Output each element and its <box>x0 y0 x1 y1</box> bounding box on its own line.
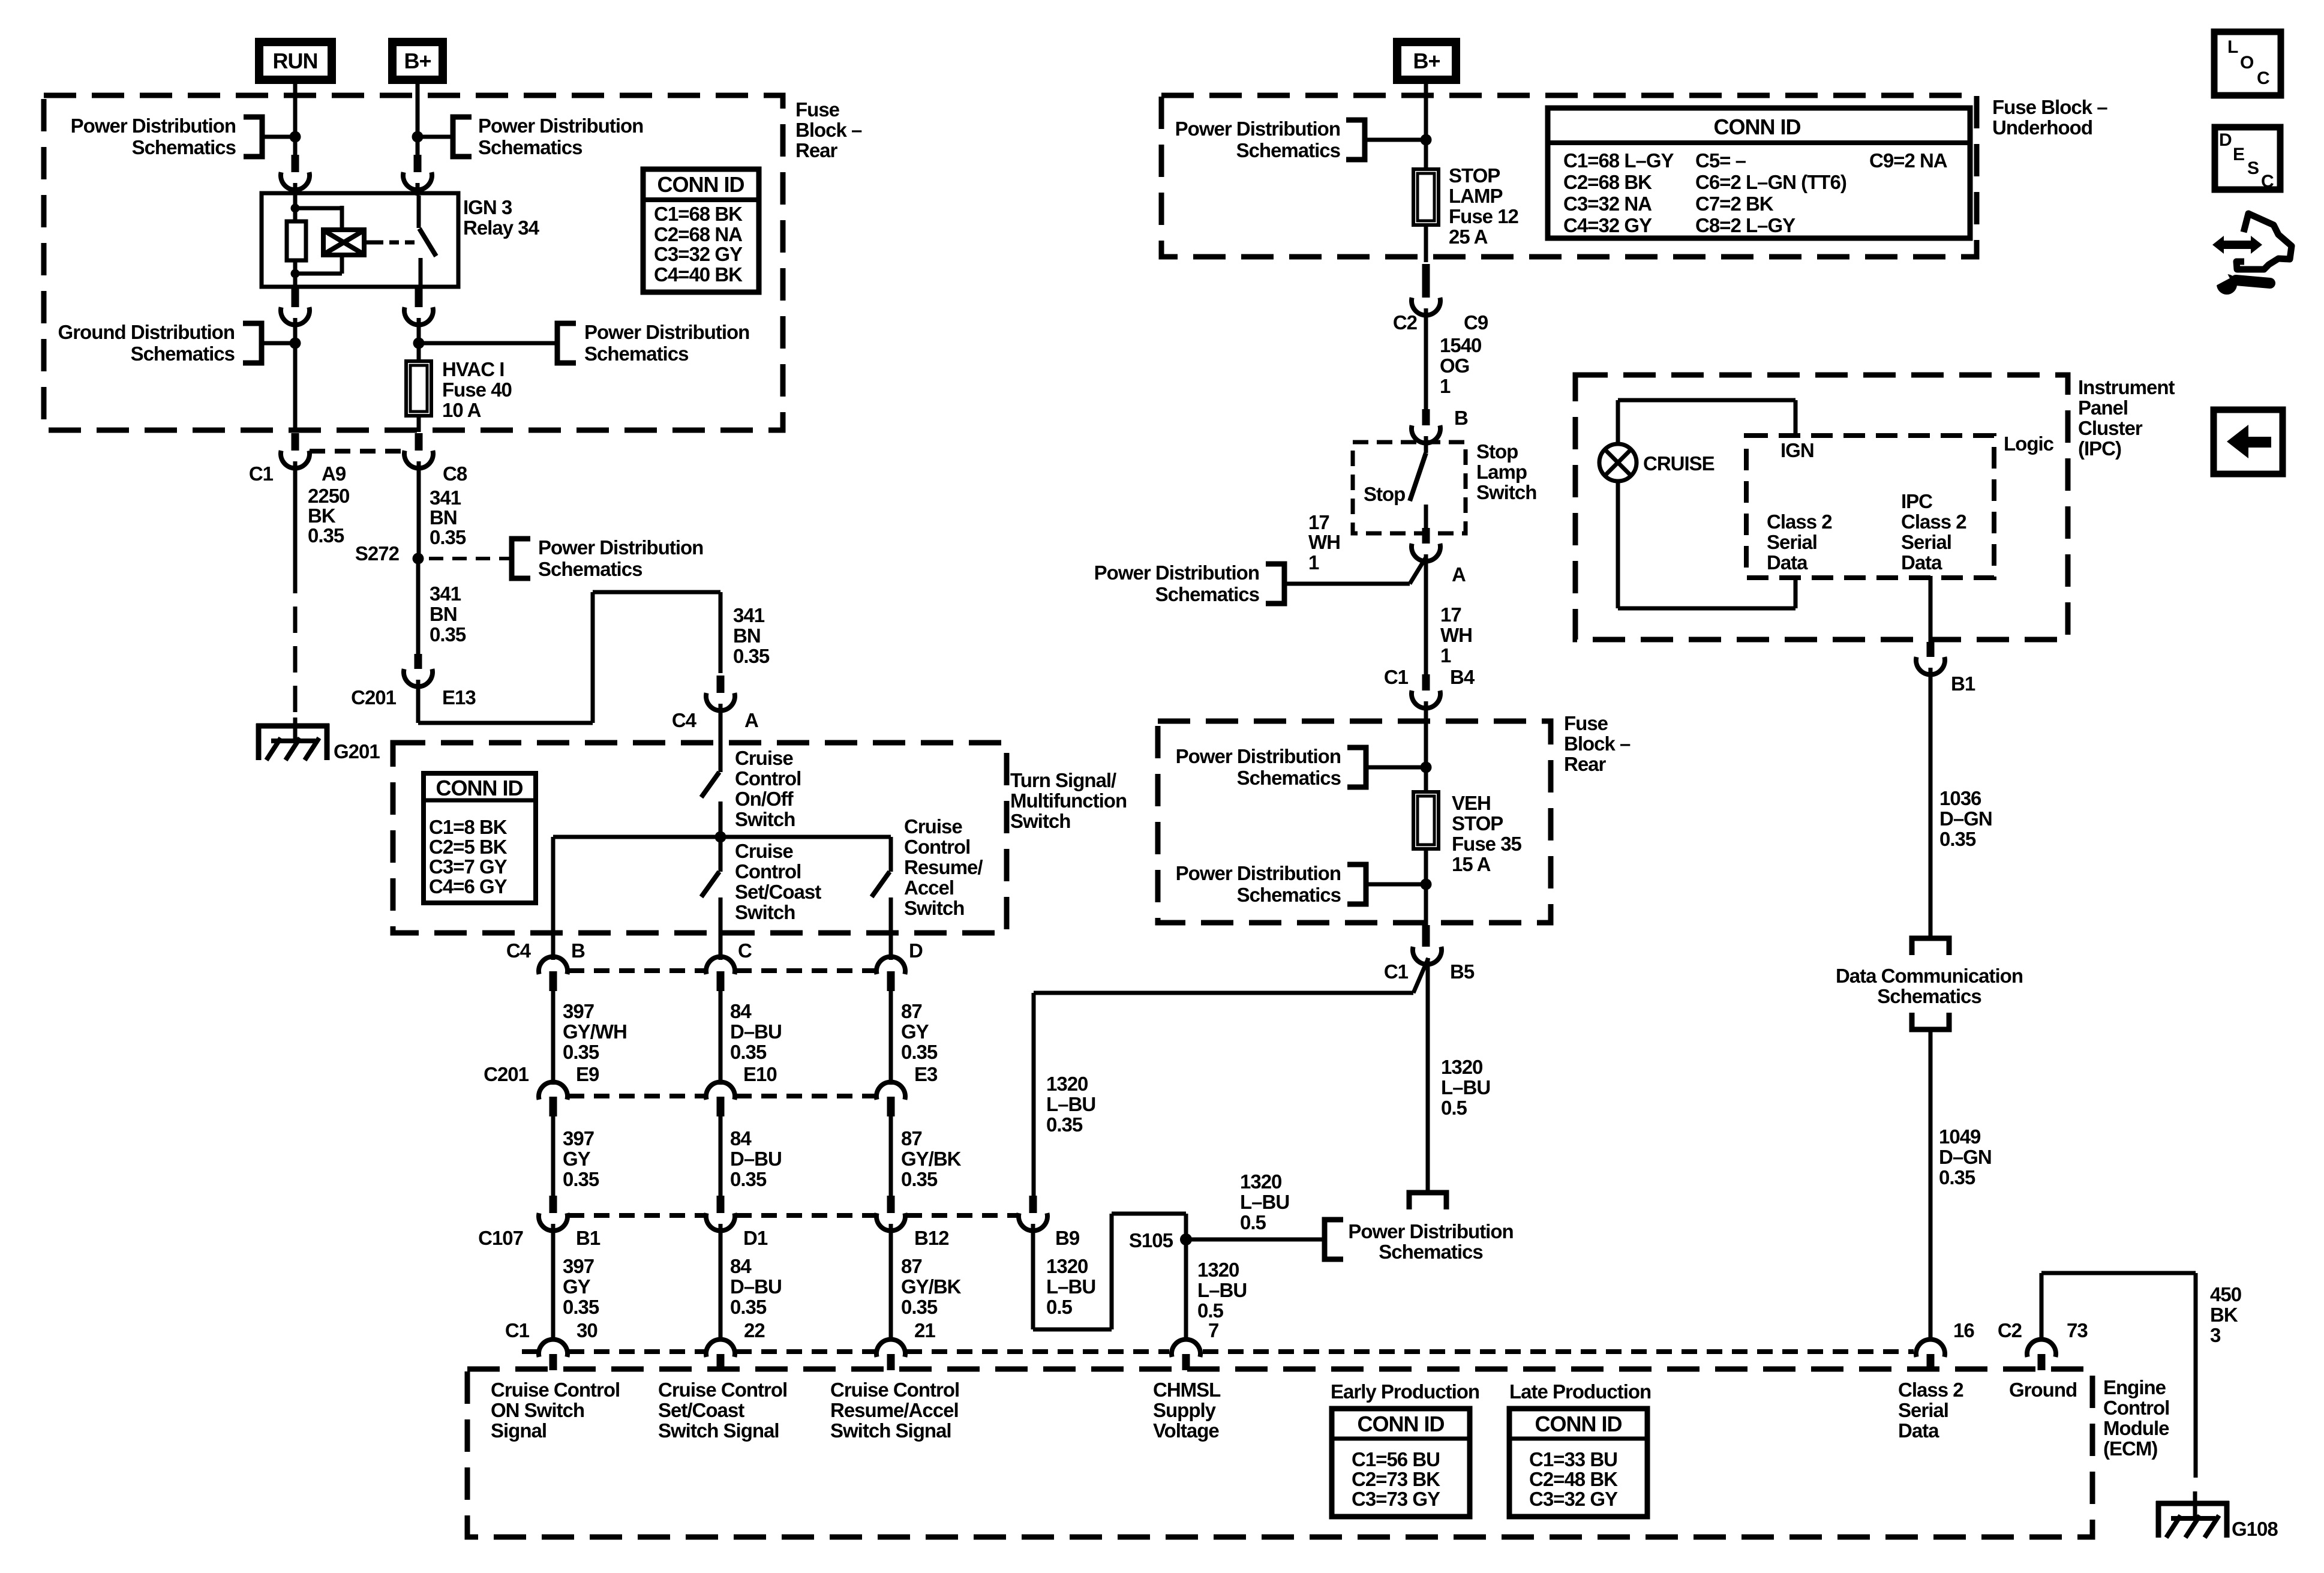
CONN ID table (turn signal) <box>424 773 536 903</box>
svg-text:0.5: 0.5 <box>1197 1299 1224 1322</box>
svg-text:D–BU: D–BU <box>730 1148 782 1170</box>
bracket ref power distribution (B+) <box>453 117 472 157</box>
connector B dome <box>539 957 568 974</box>
svg-text:Cruise: Cruise <box>735 840 793 862</box>
svg-text:Schematics: Schematics <box>1155 583 1259 605</box>
svg-text:C: C <box>2261 172 2274 191</box>
wire bracket to junction (veh stop bottom) <box>1366 882 1426 887</box>
connector B1 cup <box>550 1196 557 1213</box>
connector C1 pin B5 cup <box>1422 925 1430 947</box>
svg-text:Power Distribution: Power Distribution <box>584 321 749 343</box>
connector pin into relay (RUN side) <box>292 155 299 172</box>
connector C4 pin A <box>717 676 725 693</box>
cruise on/off switch blade <box>701 772 719 797</box>
wire stop switch out <box>1424 505 1428 536</box>
connector B cup (stop lamp) <box>1422 409 1430 425</box>
bracket ref power distribution (S105) <box>1325 1220 1343 1259</box>
wire A down to B4 <box>1424 554 1428 674</box>
wire S272 to C201 <box>416 559 421 654</box>
svg-text:Accel: Accel <box>904 876 954 899</box>
connector line C4 row <box>569 968 705 973</box>
svg-text:Fuse: Fuse <box>795 98 840 121</box>
connector line C107 row <box>569 1213 705 1218</box>
svg-text:C1=68 L–GY: C1=68 L–GY <box>1563 149 1674 172</box>
connector line C201 row <box>569 1094 705 1098</box>
svg-text:0.5: 0.5 <box>1046 1296 1073 1318</box>
svg-text:0.35: 0.35 <box>730 1168 767 1190</box>
wire C9 down <box>1424 308 1428 411</box>
svg-text:1: 1 <box>1308 551 1319 574</box>
svg-text:16: 16 <box>1953 1319 1974 1341</box>
connector 16 dome <box>1916 1340 1945 1357</box>
svg-text:Schematics: Schematics <box>584 343 688 365</box>
svg-text:S: S <box>2247 158 2259 178</box>
svg-text:Lamp: Lamp <box>1476 461 1527 483</box>
svg-text:Power Distribution: Power Distribution <box>1176 745 1341 767</box>
ground G201 <box>256 724 329 729</box>
junction right at power ref <box>413 338 425 349</box>
wire A into on/off switch <box>719 704 723 772</box>
svg-text:D1: D1 <box>743 1227 768 1249</box>
svg-text:VEH: VEH <box>1452 792 1491 814</box>
icon LOC box <box>2214 32 2281 95</box>
svg-text:Schematics: Schematics <box>1877 985 1981 1007</box>
svg-text:Cruise Control: Cruise Control <box>491 1379 620 1401</box>
svg-text:Control: Control <box>735 767 801 789</box>
svg-text:Resume/Accel: Resume/Accel <box>830 1399 959 1421</box>
icon service bent outline <box>2236 214 2292 269</box>
junction left at ground ref <box>290 338 301 349</box>
svg-text:C2: C2 <box>1998 1319 2022 1341</box>
svg-text:CONN ID: CONN ID <box>1358 1412 1445 1436</box>
svg-text:STOP: STOP <box>1452 812 1503 834</box>
wire S105 down to 7 <box>1184 1239 1188 1341</box>
svg-text:GY: GY <box>901 1020 929 1043</box>
connector A cup (stop lamp) <box>1422 528 1430 544</box>
svg-text:Control: Control <box>735 860 801 882</box>
svg-text:Cruise Control: Cruise Control <box>658 1379 787 1401</box>
icon DESC box <box>2215 127 2280 190</box>
svg-text:C107: C107 <box>478 1227 523 1249</box>
svg-text:C4=6 GY: C4=6 GY <box>429 875 508 897</box>
junction above fuse 35 <box>1421 762 1432 773</box>
svg-text:Switch: Switch <box>904 897 964 919</box>
svg-text:Serial: Serial <box>1767 531 1817 553</box>
svg-text:GY/WH: GY/WH <box>563 1020 627 1043</box>
svg-text:Fuse 12: Fuse 12 <box>1449 205 1519 227</box>
svg-text:E13: E13 <box>442 686 476 709</box>
svg-text:0.35: 0.35 <box>901 1296 938 1318</box>
svg-text:C3=32 GY: C3=32 GY <box>654 243 743 265</box>
svg-text:84: 84 <box>730 1127 752 1149</box>
svg-text:E10: E10 <box>743 1063 777 1085</box>
svg-text:IGN: IGN <box>1780 439 1814 461</box>
svg-text:87: 87 <box>901 1255 922 1277</box>
switch output junction <box>715 831 726 843</box>
svg-text:0.35: 0.35 <box>1939 1166 1975 1188</box>
svg-text:E: E <box>2233 145 2244 164</box>
svg-text:Schematics: Schematics <box>538 558 642 580</box>
svg-text:0.5: 0.5 <box>1441 1097 1467 1119</box>
svg-text:Fuse Block –: Fuse Block – <box>1992 96 2107 118</box>
cruise set/coast switch blade wire <box>719 837 723 872</box>
svg-text:B4: B4 <box>1450 666 1475 688</box>
svg-text:CHMSL: CHMSL <box>1153 1379 1221 1401</box>
svg-text:STOP: STOP <box>1449 164 1500 187</box>
power node B+ box (middle) <box>1397 42 1456 80</box>
wire fuse to box edge <box>417 416 421 432</box>
stop lamp switch blade <box>1410 453 1426 501</box>
svg-text:(IPC): (IPC) <box>2078 437 2121 460</box>
connector C1 pin B4 cup <box>1422 674 1430 691</box>
connector D dome <box>876 957 905 974</box>
svg-text:Turn Signal/: Turn Signal/ <box>1010 769 1116 791</box>
wire IPC class2 out <box>1929 576 1933 642</box>
svg-text:Stop: Stop <box>1476 440 1518 463</box>
svg-text:B: B <box>1454 407 1468 429</box>
svg-text:25 A: 25 A <box>1449 226 1488 248</box>
coil right stub <box>364 241 374 245</box>
svg-text:17: 17 <box>1308 511 1329 533</box>
svg-text:84: 84 <box>730 1255 752 1277</box>
svg-text:C201: C201 <box>351 686 397 709</box>
svg-text:C1=68 BK: C1=68 BK <box>654 203 743 225</box>
wire lamp top to IGN <box>1616 400 1620 444</box>
svg-text:341: 341 <box>430 487 461 509</box>
svg-text:Engine: Engine <box>2103 1376 2166 1398</box>
wire into relay left <box>293 183 298 196</box>
svg-text:D: D <box>909 939 923 962</box>
wire D1 to ECM <box>719 1224 723 1341</box>
svg-text:Multifunction: Multifunction <box>1010 789 1127 812</box>
svg-text:Relay 34: Relay 34 <box>463 217 540 239</box>
logic dashed box <box>1746 436 1994 578</box>
svg-text:E3: E3 <box>914 1063 938 1085</box>
svg-text:Logic: Logic <box>2004 433 2054 455</box>
svg-text:C2: C2 <box>1393 311 1418 334</box>
svg-text:Rear: Rear <box>795 139 838 161</box>
wire relay bottom left <box>292 289 299 307</box>
svg-text:IGN 3: IGN 3 <box>463 196 512 218</box>
svg-text:Data: Data <box>1767 551 1808 574</box>
svg-text:0.35: 0.35 <box>1046 1113 1083 1136</box>
svg-text:C8=2 L–GY: C8=2 L–GY <box>1695 214 1795 236</box>
junction on B+ wire <box>412 131 424 143</box>
dashed ref wire from S272 <box>429 557 509 560</box>
connector pin into relay (B+ side) <box>414 155 422 172</box>
wire B+ into underhood <box>1424 82 1428 169</box>
connector 30 dome <box>539 1340 568 1357</box>
relay junction top <box>291 204 300 213</box>
connector 7 dome <box>1172 1340 1200 1357</box>
svg-text:C9: C9 <box>1464 311 1488 334</box>
wire B4 into fuse block <box>1424 701 1428 792</box>
svg-text:BK: BK <box>308 505 336 527</box>
svg-text:0.5: 0.5 <box>1240 1211 1266 1233</box>
svg-text:S105: S105 <box>1129 1229 1173 1251</box>
connector E9 dome <box>539 1082 568 1100</box>
relay junction bottom <box>291 269 300 278</box>
svg-text:0.35: 0.35 <box>733 645 770 667</box>
cruise indicator lamp <box>1599 444 1637 481</box>
wire C8 to S272 <box>417 461 421 559</box>
svg-text:Schematics: Schematics <box>1237 767 1341 789</box>
wire E13 jog to C4 <box>416 680 421 723</box>
svg-text:A: A <box>744 709 758 731</box>
svg-text:Fuse: Fuse <box>1564 712 1608 734</box>
svg-text:C3=32 GY: C3=32 GY <box>1529 1488 1618 1510</box>
wire bracket to B+ junction <box>1365 138 1426 142</box>
svg-text:0.35: 0.35 <box>430 526 466 548</box>
svg-text:87: 87 <box>901 1127 922 1149</box>
svg-text:CONN ID: CONN ID <box>436 776 523 800</box>
wire right branch to resume <box>889 837 893 872</box>
wire D to C201 <box>889 991 893 1085</box>
wire coil bottom to junction <box>340 255 344 274</box>
svg-text:WH: WH <box>1308 531 1340 553</box>
bracket ref power distribution down (B5) <box>1409 1193 1446 1209</box>
svg-text:S272: S272 <box>355 542 400 565</box>
svg-text:CONN ID: CONN ID <box>1535 1412 1622 1436</box>
svg-text:C1: C1 <box>505 1319 530 1341</box>
svg-text:OG: OG <box>1440 355 1469 377</box>
CONN ID table (underhood) <box>1548 108 1970 238</box>
bracket ref ground distribution <box>243 323 262 363</box>
fuse block rear middle dashed box <box>1158 721 1551 923</box>
instrument panel cluster dashed box <box>1575 375 2068 640</box>
svg-text:Rear: Rear <box>1564 753 1607 775</box>
svg-text:Set/Coast: Set/Coast <box>735 881 821 903</box>
CONN ID table late <box>1509 1409 1647 1517</box>
svg-text:Block –: Block – <box>795 119 862 141</box>
svg-text:L–BU: L–BU <box>1197 1279 1247 1301</box>
svg-text:Schematics: Schematics <box>1237 884 1341 906</box>
svg-text:Stop: Stop <box>1364 483 1405 505</box>
svg-text:C4: C4 <box>672 709 697 731</box>
power node RUN box <box>259 42 332 80</box>
wire B+ junction to bracket <box>418 135 453 139</box>
svg-text:0.35: 0.35 <box>430 623 466 646</box>
svg-text:L–BU: L–BU <box>1441 1076 1490 1098</box>
svg-text:30: 30 <box>577 1319 597 1341</box>
svg-text:B12: B12 <box>914 1227 949 1249</box>
svg-text:Instrument: Instrument <box>2078 376 2175 398</box>
svg-text:Power Distribution: Power Distribution <box>538 536 703 559</box>
svg-text:341: 341 <box>430 583 461 605</box>
wire B9 jog to S105 <box>1031 1224 1035 1329</box>
svg-text:D–GN: D–GN <box>1939 1146 1992 1168</box>
bracket ref power distribution (veh stop top) <box>1347 748 1366 787</box>
svg-text:21: 21 <box>914 1319 935 1341</box>
svg-text:Power Distribution: Power Distribution <box>1176 862 1341 884</box>
svg-text:22: 22 <box>744 1319 765 1341</box>
svg-text:Class 2: Class 2 <box>1901 511 1966 533</box>
connector line ECM row <box>522 1349 538 1354</box>
svg-text:D: D <box>2219 130 2232 150</box>
relay K IGN 3 Relay 34 box <box>262 193 458 287</box>
svg-text:Power Distribution: Power Distribution <box>1348 1220 1513 1242</box>
connector C201 pin E13 <box>415 654 422 669</box>
wire data comm to ECM 16 <box>1929 1029 1933 1341</box>
fuse F HVAC I Fuse 40 <box>406 361 431 416</box>
wire B1 to data comm <box>1929 668 1933 936</box>
bracket ref power distribution (HVAC) <box>557 323 576 363</box>
wire B5 down <box>1426 958 1430 1193</box>
svg-text:C1=8 BK: C1=8 BK <box>429 816 508 838</box>
svg-text:RUN: RUN <box>273 49 318 73</box>
svg-text:0.35: 0.35 <box>308 524 344 547</box>
svg-text:GY/BK: GY/BK <box>901 1148 962 1170</box>
svg-text:1540: 1540 <box>1440 334 1481 356</box>
wire stub to G108 <box>2193 1491 2197 1503</box>
connector C2 pin C9 <box>1422 264 1430 298</box>
junction below fuse 35 <box>1421 879 1432 890</box>
connector line C1 <box>310 449 403 454</box>
dashed link coil to switch <box>374 241 416 245</box>
svg-text:Data Communication: Data Communication <box>1836 965 2023 987</box>
svg-text:1320: 1320 <box>1046 1073 1088 1095</box>
svg-text:BN: BN <box>430 603 457 625</box>
svg-text:Switch: Switch <box>735 901 795 923</box>
svg-text:Early Production: Early Production <box>1331 1380 1479 1403</box>
svg-text:Power Distribution: Power Distribution <box>1094 562 1259 584</box>
svg-text:Control: Control <box>904 836 970 858</box>
svg-text:0.35: 0.35 <box>1939 828 1976 850</box>
svg-text:Fuse 40: Fuse 40 <box>442 379 512 401</box>
svg-text:Underhood: Underhood <box>1992 116 2092 139</box>
svg-text:G108: G108 <box>2232 1518 2278 1540</box>
wire bracket to A <box>1284 582 1410 586</box>
svg-text:CONN ID: CONN ID <box>1714 115 1801 139</box>
svg-text:Schematics: Schematics <box>1236 139 1340 161</box>
wire lamp bottom to class2 <box>1616 481 1620 608</box>
bracket ref data comm bottom <box>1912 1013 1949 1029</box>
svg-text:Cluster: Cluster <box>2078 417 2143 439</box>
svg-text:1320: 1320 <box>1441 1056 1482 1078</box>
svg-text:Serial: Serial <box>1901 531 1951 553</box>
wire E9 to C107 <box>551 1116 556 1197</box>
svg-text:C2=73 BK: C2=73 BK <box>1352 1468 1440 1490</box>
svg-text:Supply: Supply <box>1153 1399 1217 1421</box>
svg-text:Data: Data <box>1901 551 1942 574</box>
relay wire below resistor <box>293 260 298 287</box>
svg-text:ON Switch: ON Switch <box>491 1399 584 1421</box>
junction B+ underhood <box>1421 134 1432 146</box>
bracket ref power distribution (stop) <box>1266 564 1284 604</box>
svg-text:Late Production: Late Production <box>1509 1380 1651 1403</box>
wire right junction to bracket <box>419 341 557 346</box>
svg-text:Schematics: Schematics <box>478 136 582 158</box>
svg-text:B9: B9 <box>1055 1227 1080 1249</box>
relay coil branch wire left <box>293 196 298 221</box>
svg-text:Panel: Panel <box>2078 397 2128 419</box>
fuse block - rear dashed box <box>44 95 783 430</box>
svg-text:C5= –: C5= – <box>1695 149 1746 172</box>
svg-text:C7=2 BK: C7=2 BK <box>1695 193 1774 215</box>
svg-text:BN: BN <box>430 506 457 529</box>
svg-text:C6=2 L–GN (TT6): C6=2 L–GN (TT6) <box>1695 171 1846 193</box>
svg-text:Switch: Switch <box>1476 481 1536 503</box>
stop lamp switch dashed box <box>1353 442 1466 533</box>
svg-text:C2=5 BK: C2=5 BK <box>429 836 508 858</box>
svg-text:0.35: 0.35 <box>901 1041 938 1063</box>
relay coil with X <box>323 230 364 255</box>
wire B+ to relay <box>416 82 420 172</box>
bracket ref power distribution (RUN) <box>244 117 262 157</box>
svg-text:B5: B5 <box>1450 960 1475 983</box>
svg-text:0.35: 0.35 <box>563 1168 599 1190</box>
svg-text:IPC: IPC <box>1901 490 1932 512</box>
svg-text:Cruise: Cruise <box>735 747 793 769</box>
wire bracket to RUN junction <box>262 135 295 139</box>
connector B1 cup (IPC) <box>1927 642 1935 657</box>
svg-text:0.35: 0.35 <box>901 1168 938 1190</box>
svg-text:C2=48 BK: C2=48 BK <box>1529 1468 1618 1490</box>
svg-text:Schematics: Schematics <box>1379 1241 1482 1263</box>
svg-text:Data: Data <box>1898 1419 1939 1442</box>
svg-text:341: 341 <box>733 604 765 626</box>
connector E10 dome <box>706 1082 735 1100</box>
svg-text:0.35: 0.35 <box>730 1041 767 1063</box>
connector C1 pin C8 <box>415 433 423 451</box>
wire 73 ground loop <box>2040 1273 2044 1341</box>
svg-text:C2=68 NA: C2=68 NA <box>654 223 742 245</box>
svg-text:Voltage: Voltage <box>1153 1419 1219 1442</box>
svg-text:C3=32 NA: C3=32 NA <box>1563 193 1652 215</box>
svg-text:D–GN: D–GN <box>1939 807 1992 830</box>
svg-text:7: 7 <box>1208 1319 1218 1341</box>
svg-text:BK: BK <box>2210 1304 2238 1326</box>
bracket ref data comm top <box>1912 938 1949 955</box>
connector 21 dome <box>876 1340 905 1357</box>
svg-text:GY/BK: GY/BK <box>901 1275 962 1298</box>
svg-text:Switch: Switch <box>1010 810 1070 832</box>
splice S272 <box>413 553 424 565</box>
wire A9 circuit 2250 <box>293 461 298 567</box>
connector 22 dome <box>706 1340 735 1357</box>
svg-text:L–BU: L–BU <box>1046 1093 1095 1115</box>
svg-text:On/Off: On/Off <box>735 788 794 810</box>
svg-text:(ECM): (ECM) <box>2103 1437 2157 1460</box>
wire left branch to B <box>551 837 556 960</box>
wire E3 to C107 <box>889 1116 893 1197</box>
svg-text:87: 87 <box>901 1000 922 1022</box>
svg-text:C3=73 GY: C3=73 GY <box>1352 1488 1440 1510</box>
icon service wrench <box>2217 274 2237 295</box>
wire relay bottom right <box>415 289 423 307</box>
wire junction to coil top <box>295 206 342 211</box>
svg-text:1: 1 <box>1440 644 1451 667</box>
turn signal multifunction switch dashed box <box>393 743 1007 933</box>
svg-text:CRUISE: CRUISE <box>1643 452 1715 475</box>
svg-text:B1: B1 <box>1951 673 1975 695</box>
svg-text:Class 2: Class 2 <box>1898 1379 1963 1401</box>
wire bracket to left junction <box>262 341 295 346</box>
connector 73 dome <box>2027 1340 2056 1357</box>
svg-text:C3=7 GY: C3=7 GY <box>429 855 508 878</box>
svg-text:Resume/: Resume/ <box>904 856 983 878</box>
cruise set/coast switch blade <box>701 872 719 897</box>
svg-text:0.35: 0.35 <box>563 1041 599 1063</box>
svg-text:0.35: 0.35 <box>563 1296 599 1318</box>
svg-text:Control: Control <box>2103 1397 2169 1419</box>
svg-text:84: 84 <box>730 1000 752 1022</box>
svg-text:1320: 1320 <box>1240 1170 1281 1193</box>
svg-text:73: 73 <box>2067 1319 2088 1341</box>
svg-text:E9: E9 <box>576 1063 599 1085</box>
svg-text:Set/Coast: Set/Coast <box>658 1399 744 1421</box>
svg-text:1320: 1320 <box>1046 1255 1088 1277</box>
